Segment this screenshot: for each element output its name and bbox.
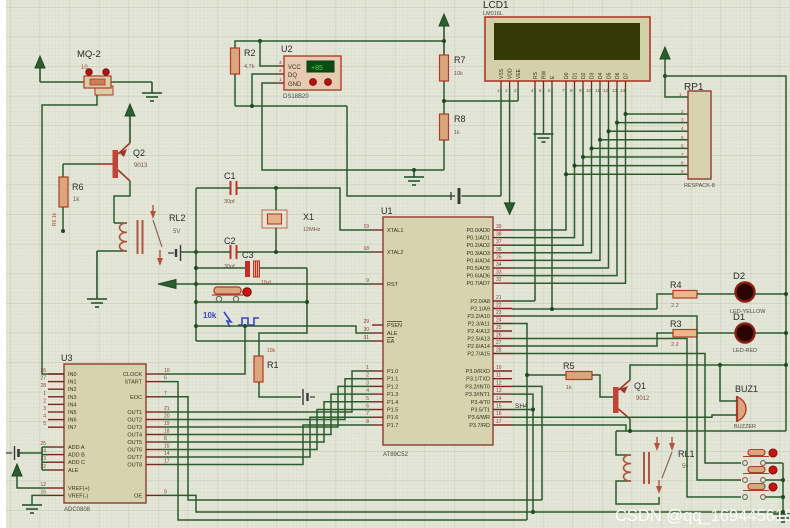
svg-text:1k: 1k [454,130,460,136]
svg-text:P2.4/A12: P2.4/A12 [467,329,490,335]
wire R1 to cell [259,382,301,397]
svg-text:39: 39 [496,224,502,230]
svg-text:1: 1 [43,391,46,397]
wire P3.2 drop [512,386,542,500]
svg-text:30pf: 30pf [224,199,235,205]
svg-text:C2: C2 [224,236,236,246]
svg-text:P2.7/A15: P2.7/A15 [467,352,490,358]
svg-text:P1.7: P1.7 [387,423,398,429]
gas sensor MQ-2 [77,49,113,95]
svg-text:4: 4 [366,388,369,394]
wire DQ branch to cell [347,106,455,196]
svg-text:BUZZER: BUZZER [734,424,756,430]
wire EOC drop [162,397,542,500]
svg-text:R1: R1 [267,360,279,370]
power arrow VREF+ [12,464,48,488]
svg-text:P2.6/A14: P2.6/A14 [467,344,490,350]
push button reset [212,287,251,302]
svg-text:8: 8 [366,419,369,425]
wire button node to R1 [259,300,309,356]
svg-text:12: 12 [603,88,609,93]
svg-text:XTAL2: XTAL2 [387,250,403,256]
push button S2 [743,466,783,482]
svg-text:+85: +85 [311,65,323,72]
svg-text:P0.6/AD6: P0.6/AD6 [466,274,490,280]
svg-text:P1.6: P1.6 [387,415,398,421]
wire R7-R8 node to VEE [442,81,518,114]
svg-text:U3: U3 [61,353,73,363]
crystal X1 [262,188,321,252]
buzzer BUZ1 [734,384,758,430]
svg-text:14: 14 [620,88,626,93]
svg-text:P2.3/A11: P2.3/A11 [468,322,490,328]
battery cell ADC address [6,446,48,470]
power arrow VCC top-left [35,56,45,82]
wire U2 GND to ground line [262,83,444,170]
svg-text:R7: R7 [454,55,466,65]
svg-text:34: 34 [496,262,502,268]
svg-text:19: 19 [164,421,170,427]
svg-text:IN4: IN4 [68,402,77,408]
power arrow above R7 [439,14,449,55]
wire top rail R2 to R7 [235,39,446,106]
wire R6 bottom node [61,207,65,233]
svg-text:12: 12 [40,482,46,488]
svg-text:D5: D5 [607,72,613,79]
svg-text:37: 37 [496,239,502,245]
svg-text:P2.5/A13: P2.5/A13 [467,337,490,343]
svg-text:15: 15 [164,444,170,450]
svg-text:30pf: 30pf [224,264,235,270]
svg-text:4: 4 [43,414,46,420]
svg-text:8: 8 [164,436,167,442]
svg-text:P1.3: P1.3 [387,392,398,398]
svg-text:2.2: 2.2 [671,303,679,309]
svg-text:1k: 1k [73,197,80,203]
junction dots data bus [564,112,628,176]
svg-text:10uf: 10uf [261,280,271,286]
svg-text:21: 21 [496,295,502,301]
svg-text:P1.1: P1.1 [387,377,398,383]
svg-text:MQ-2: MQ-2 [77,49,101,60]
svg-text:33: 33 [496,270,502,276]
svg-text:28: 28 [40,383,46,389]
svg-text:9013: 9013 [134,163,148,169]
capacitor C1 [224,171,237,205]
svg-text:Q1: Q1 [634,381,646,391]
svg-text:R5: R5 [563,361,575,371]
power arrow down VDD [505,88,515,214]
svg-text:D2: D2 [733,271,745,282]
svg-text:IN5: IN5 [68,410,77,416]
svg-text:7: 7 [366,411,369,417]
svg-text:VDD: VDD [508,68,514,79]
svg-text:27: 27 [40,376,46,382]
svg-text:7: 7 [164,391,167,397]
wire LCD RS to P2.0 [512,88,535,301]
svg-text:12: 12 [496,380,502,386]
svg-text:P2.1/A9: P2.1/A9 [470,307,490,313]
LCD1 LM016L [483,0,650,93]
svg-text:P0.4/AD4: P0.4/AD4 [466,258,490,264]
svg-text:CLOCK: CLOCK [123,372,142,378]
resistor R1 [254,348,279,382]
battery cell near U1 [451,188,501,204]
svg-text:RW: RW [542,70,548,79]
resistor R5 [563,361,592,391]
svg-text:OUT6: OUT6 [127,448,142,454]
svg-text:10k: 10k [454,71,463,77]
svg-text:R6: R6 [72,182,84,192]
svg-text:SH4: SH4 [515,403,528,410]
svg-text:13: 13 [496,388,502,394]
transistor Q2 [63,143,148,181]
wire LCD VEE to divider [517,88,519,101]
svg-text:P3.3/INT1: P3.3/INT1 [465,392,490,398]
svg-text:9: 9 [366,278,369,284]
wire P3.7 to collector line [512,425,626,431]
wire R8 bottom to ground line [443,140,445,170]
svg-text:EOC: EOC [130,395,142,401]
wire P2.6 jog to R3 [512,333,673,346]
svg-text:3: 3 [43,406,46,412]
svg-text:R6 1k: R6 1k [52,212,58,226]
svg-text:P3.0/RXD: P3.0/RXD [466,369,490,375]
svg-text:25: 25 [40,441,46,447]
svg-text:IN1: IN1 [68,380,77,386]
wire Q2 emitter to relay coil [114,181,130,223]
wire ALE/clock node [162,324,372,374]
svg-text:LED-RED: LED-RED [733,348,757,354]
svg-text:VREF(-): VREF(-) [68,493,88,499]
wire P2.5 to button3 [512,339,741,498]
svg-text:10: 10 [586,88,592,93]
svg-text:P0.3/AD3: P0.3/AD3 [466,251,490,257]
svg-text:28: 28 [496,348,502,354]
svg-text:P3.1/TXD: P3.1/TXD [466,377,490,383]
wire P2.1 jog to R4 [657,294,673,309]
svg-text:DQ: DQ [288,73,297,79]
svg-text:P3.5/T1: P3.5/T1 [471,408,490,414]
svg-text:D1: D1 [733,312,745,323]
svg-text:6: 6 [164,376,167,382]
svg-text:17: 17 [164,459,170,465]
svg-text:VSS: VSS [499,68,505,79]
svg-text:14: 14 [496,396,502,402]
ground RL2 coil [87,251,107,307]
wire MQ2 right to ground [111,81,152,83]
svg-text:26: 26 [496,333,502,339]
svg-text:IN0: IN0 [68,372,77,378]
wire Q1 collector to RL1 [616,419,786,433]
svg-text:ADD B: ADD B [68,453,85,459]
svg-text:OUT3: OUT3 [127,425,142,431]
svg-text:CSDN @qq_1694456187: CSDN @qq_1694456187 [615,507,790,525]
svg-text:P1.4: P1.4 [387,400,398,406]
wire P2.3 to R5 and START net [512,324,566,521]
transistor Q1 [613,380,650,419]
LED D2 yellow [730,271,766,315]
svg-text:2: 2 [43,398,46,404]
svg-text:22: 22 [496,303,502,309]
svg-text:35: 35 [496,254,502,260]
svg-text:P2.0/A8: P2.0/A8 [470,299,490,305]
svg-text:6: 6 [366,404,369,410]
svg-text:15: 15 [496,404,502,410]
wire LCD VSS to cell [500,88,502,196]
svg-text:P3.6/WR: P3.6/WR [468,415,490,421]
svg-text:P3.2/INT0: P3.2/INT0 [465,384,490,390]
svg-text:D0: D0 [564,72,570,79]
wire LCD E to P2.1 and R4 [512,88,657,311]
svg-text:GND: GND [288,82,302,88]
svg-text:25: 25 [496,325,502,331]
svg-text:ADC0808: ADC0808 [64,507,91,513]
resistor R6 [52,177,84,226]
svg-text:26: 26 [40,368,46,374]
svg-text:P1.0: P1.0 [387,369,398,375]
svg-text:2.2: 2.2 [671,342,679,348]
svg-text:ADD C: ADD C [68,460,85,466]
push button S3 [743,483,783,499]
wire P2.2 to button2 [512,316,741,480]
svg-text:16: 16 [40,489,46,495]
wire RST line with power arrow [158,280,372,289]
svg-text:R2: R2 [244,48,256,58]
svg-text:IN7: IN7 [68,425,77,431]
resistor R7 [440,55,466,81]
svg-text:5: 5 [43,421,46,427]
svg-text:XTAL1: XTAL1 [387,228,403,234]
svg-text:27: 27 [496,340,502,346]
svg-text:P0.7/AD7: P0.7/AD7 [466,281,490,287]
svg-text:C1: C1 [224,171,236,181]
wire START drop [162,382,527,520]
relay RL1 [616,431,695,504]
svg-text:P1.5: P1.5 [387,408,398,414]
junction dots rail LEDs [784,292,788,335]
ground VREF- [22,495,48,513]
svg-text:U1: U1 [381,206,393,216]
svg-text:21: 21 [164,406,170,412]
svg-text:29: 29 [363,319,369,325]
battery cell R1 [303,389,315,405]
svg-text:IN6: IN6 [68,418,77,424]
svg-text:1k: 1k [566,385,572,391]
svg-text:IN3: IN3 [68,395,77,401]
wire C1 line to XTAL1 [196,186,372,230]
svg-text:P2.2/A10: P2.2/A10 [467,314,490,320]
svg-text:24: 24 [496,318,502,324]
ADC U3 ADC0808 [40,353,169,513]
svg-text:ALE: ALE [68,468,79,474]
svg-text:C3: C3 [242,250,254,260]
svg-text:OUT1: OUT1 [127,410,142,416]
relay RL2 [97,205,186,266]
svg-text:P0.1/AD1: P0.1/AD1 [466,236,490,242]
svg-text:VREF(+): VREF(+) [68,486,90,492]
wire EA line [196,340,372,342]
wire C2 line to XTAL2 [194,250,372,254]
svg-text:23: 23 [496,310,502,316]
wire R5 to Q1 base [592,375,613,397]
ground MQ2 [142,82,162,101]
svg-text:D7: D7 [624,72,630,79]
MCU U1 AT89C52 [363,206,512,458]
wire MQ2 left [40,81,84,83]
power arrow above Q2 [125,104,135,143]
wire R3 to rail [697,332,786,334]
svg-text:16: 16 [496,411,502,417]
svg-text:OUT2: OUT2 [127,418,142,424]
svg-text:17: 17 [496,419,502,425]
wire C3 row [196,267,307,269]
capacitor C2 [224,236,237,270]
svg-text:RL2: RL2 [169,213,186,223]
wire LCD data bus D0-D7 [512,88,688,283]
svg-text:D3: D3 [590,72,596,79]
temperature sensor U2 DS18B20 [277,44,341,100]
svg-text:EA: EA [387,339,395,345]
svg-text:OUT7: OUT7 [127,455,142,461]
svg-text:P0.5/AD5: P0.5/AD5 [466,266,490,272]
svg-text:20: 20 [164,414,170,420]
resistor R3 [670,319,697,348]
wire Q1 emitter rail [630,363,788,380]
svg-text:P3.4/T0: P3.4/T0 [471,400,490,406]
svg-text:1: 1 [366,365,369,371]
svg-text:P3.7/RD: P3.7/RD [469,423,490,429]
LED D1 red [733,312,757,354]
wire button row [196,301,307,303]
svg-text:36: 36 [496,247,502,253]
resistor pack RP1 RESPACK-8 [679,82,715,189]
ground buttons [773,514,790,522]
svg-text:OUT8: OUT8 [127,463,142,469]
svg-text:IN2: IN2 [68,387,77,393]
resistor R4 [670,280,697,309]
ground LCD RW [534,88,554,142]
wire U2 VCC from rail [260,41,277,66]
wire bus ADC OUT to P1 [162,371,372,465]
svg-text:P0.0/AD0: P0.0/AD0 [466,228,490,234]
power arrow RP1 [660,47,688,97]
svg-text:4.7k: 4.7k [244,64,255,70]
svg-text:11: 11 [496,373,501,379]
svg-text:D6: D6 [615,72,621,79]
svg-text:DS18B20: DS18B20 [283,94,309,100]
svg-text:9012: 9012 [636,396,650,402]
svg-text:VCC: VCC [288,65,301,71]
svg-text:P0.2/AD2: P0.2/AD2 [466,243,490,249]
svg-text:RS: RS [533,71,539,79]
wire P3.3 SH4 drop [512,394,535,514]
svg-text:3: 3 [366,380,369,386]
svg-text:R8: R8 [454,114,466,124]
svg-text:OE: OE [134,493,142,499]
svg-text:OUT4: OUT4 [127,433,142,439]
wire MQ2 output down to ADC IN0 [42,95,97,374]
interactive probe blue [203,311,259,327]
capacitor C3 electrolytic [242,250,271,286]
wire reset box verticals [194,188,307,341]
wire buzzer bottom from P3.6 [512,415,737,417]
svg-text:BUZ1: BUZ1 [735,384,758,394]
svg-text:32: 32 [496,277,502,283]
wire buttons common to ground [781,463,785,514]
svg-text:5V: 5V [173,229,180,235]
svg-text:R4: R4 [670,280,682,290]
wire buzzer top [720,365,737,401]
svg-text:5: 5 [366,396,369,402]
svg-text:ADD A: ADD A [68,445,85,451]
svg-text:X1: X1 [303,212,314,222]
svg-text:R3: R3 [670,319,682,329]
svg-text:D4: D4 [598,72,604,79]
svg-text:RST: RST [387,282,399,288]
svg-text:PSEN: PSEN [387,323,402,329]
svg-text:9: 9 [164,489,167,495]
ground center [404,168,424,185]
push button S1 [743,449,783,465]
wire R4 to rail [697,293,786,295]
svg-text:ALE: ALE [387,331,398,337]
svg-text:31: 31 [363,335,369,341]
svg-text:LM016L: LM016L [483,11,503,17]
resistor R2 [231,48,256,74]
svg-text:10k: 10k [203,311,217,320]
wire Q2 base down [62,164,64,177]
svg-text:VEE: VEE [516,68,522,79]
svg-text:Q2: Q2 [133,148,145,158]
resistor R8 [440,114,466,140]
svg-text:D1: D1 [573,72,579,79]
svg-text:D2: D2 [581,72,587,79]
svg-text:19: 19 [363,224,369,230]
battery cell RL2 [168,245,196,261]
wire right supply rail [665,76,786,431]
svg-text:14: 14 [164,451,170,457]
wire OE drop [162,495,783,512]
svg-text:38: 38 [496,232,502,238]
svg-text:10k: 10k [267,348,276,354]
svg-text:30: 30 [363,327,369,333]
svg-text:AT89C52: AT89C52 [383,452,409,458]
svg-text:START: START [124,380,142,386]
svg-text:LCD1: LCD1 [483,0,509,11]
svg-text:2: 2 [366,373,369,379]
svg-text:12MHz: 12MHz [303,227,321,233]
svg-text:10: 10 [164,368,170,374]
svg-text:10: 10 [81,65,88,71]
svg-text:U2: U2 [281,44,293,54]
svg-text:OUT5: OUT5 [127,440,142,446]
wire P2.7 to button1 [512,354,741,464]
svg-text:18: 18 [164,429,170,435]
wire U2 DQ to R2 pullup [235,74,347,108]
svg-text:10: 10 [496,365,502,371]
svg-text:18: 18 [363,246,369,252]
svg-text:P1.2: P1.2 [387,384,398,390]
svg-text:RESPACK-8: RESPACK-8 [684,183,715,189]
